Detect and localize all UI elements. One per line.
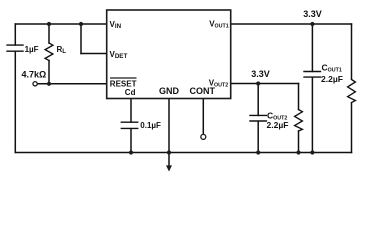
svg-text:Cd: Cd	[125, 88, 136, 97]
wire Cd pin down	[130, 99, 132, 123]
resistor R2 bottom wire	[298, 131, 300, 153]
junction node GND ground	[167, 150, 171, 154]
wire VOUT2 rail	[231, 83, 299, 85]
junction node R2 ground	[296, 150, 300, 154]
svg-text:3.3V: 3.3V	[303, 9, 322, 19]
wire COUT2 top stem	[257, 84, 259, 116]
resistor R2 zigzag	[295, 110, 303, 132]
resistor RL top wire	[48, 24, 50, 43]
capacitor C1 plates	[7, 45, 23, 51]
capacitor COUT1 plates	[304, 72, 321, 78]
junction node VOUT2 3.3V	[256, 81, 260, 85]
wire GND pin down	[168, 99, 170, 153]
terminal circle RESET output	[33, 82, 37, 86]
junction node VOUT1 3.3V	[310, 22, 314, 26]
capacitor COUT2 bottom stem wire	[257, 121, 259, 152]
svg-text:2.2µF: 2.2µF	[267, 120, 289, 130]
capacitor C1 bottom stem wire	[14, 52, 16, 153]
resistor R3 bottom wire	[351, 103, 353, 153]
junction node COUT2 ground	[256, 150, 260, 154]
resistor R2 top wire	[298, 84, 300, 110]
capacitor C1 1uF top stem	[14, 24, 16, 45]
svg-text:4.7kΩ: 4.7kΩ	[22, 70, 47, 80]
junction node RL bottom RESET	[47, 82, 51, 86]
terminal circle CONT	[201, 134, 206, 139]
junction node COUT1 ground	[310, 150, 314, 154]
wire VIN rail top	[15, 23, 106, 25]
resistor RL bottom wire	[48, 61, 50, 84]
wire RESET net	[38, 83, 107, 85]
wire VOUT1 rail	[231, 23, 352, 25]
resistor R3 zigzag	[348, 80, 356, 103]
capacitor COUT2 plates	[250, 115, 266, 121]
ground arrow shaft	[168, 153, 170, 166]
wire VDET branch horizontal	[81, 53, 107, 55]
svg-text:3.3V: 3.3V	[251, 69, 270, 79]
svg-text:CONT: CONT	[190, 86, 216, 96]
wire VDET branch vertical	[80, 24, 82, 54]
resistor R3 top wire	[351, 24, 353, 79]
capacitor C2 0.1uF plates	[121, 122, 137, 128]
junction node RL top	[47, 22, 51, 26]
junction node Cd ground	[129, 150, 133, 154]
wire CONT pin down	[202, 99, 204, 135]
pin label RESET overline	[110, 77, 137, 79]
IC box U1	[107, 10, 231, 99]
capacitor C2 bottom stem wire	[130, 129, 132, 153]
svg-text:2.2µF: 2.2µF	[321, 74, 343, 84]
svg-text:GND: GND	[159, 86, 180, 96]
svg-text:1µF: 1µF	[25, 45, 39, 54]
capacitor COUT1 bottom stem wire	[311, 77, 313, 152]
wire COUT1 top stem	[311, 24, 313, 71]
svg-text:0.1µF: 0.1µF	[140, 121, 161, 130]
junction node VDET branch	[79, 22, 83, 26]
wire ground rail	[15, 152, 351, 154]
resistor RL zigzag	[45, 43, 53, 61]
ground arrow head	[166, 165, 172, 171]
